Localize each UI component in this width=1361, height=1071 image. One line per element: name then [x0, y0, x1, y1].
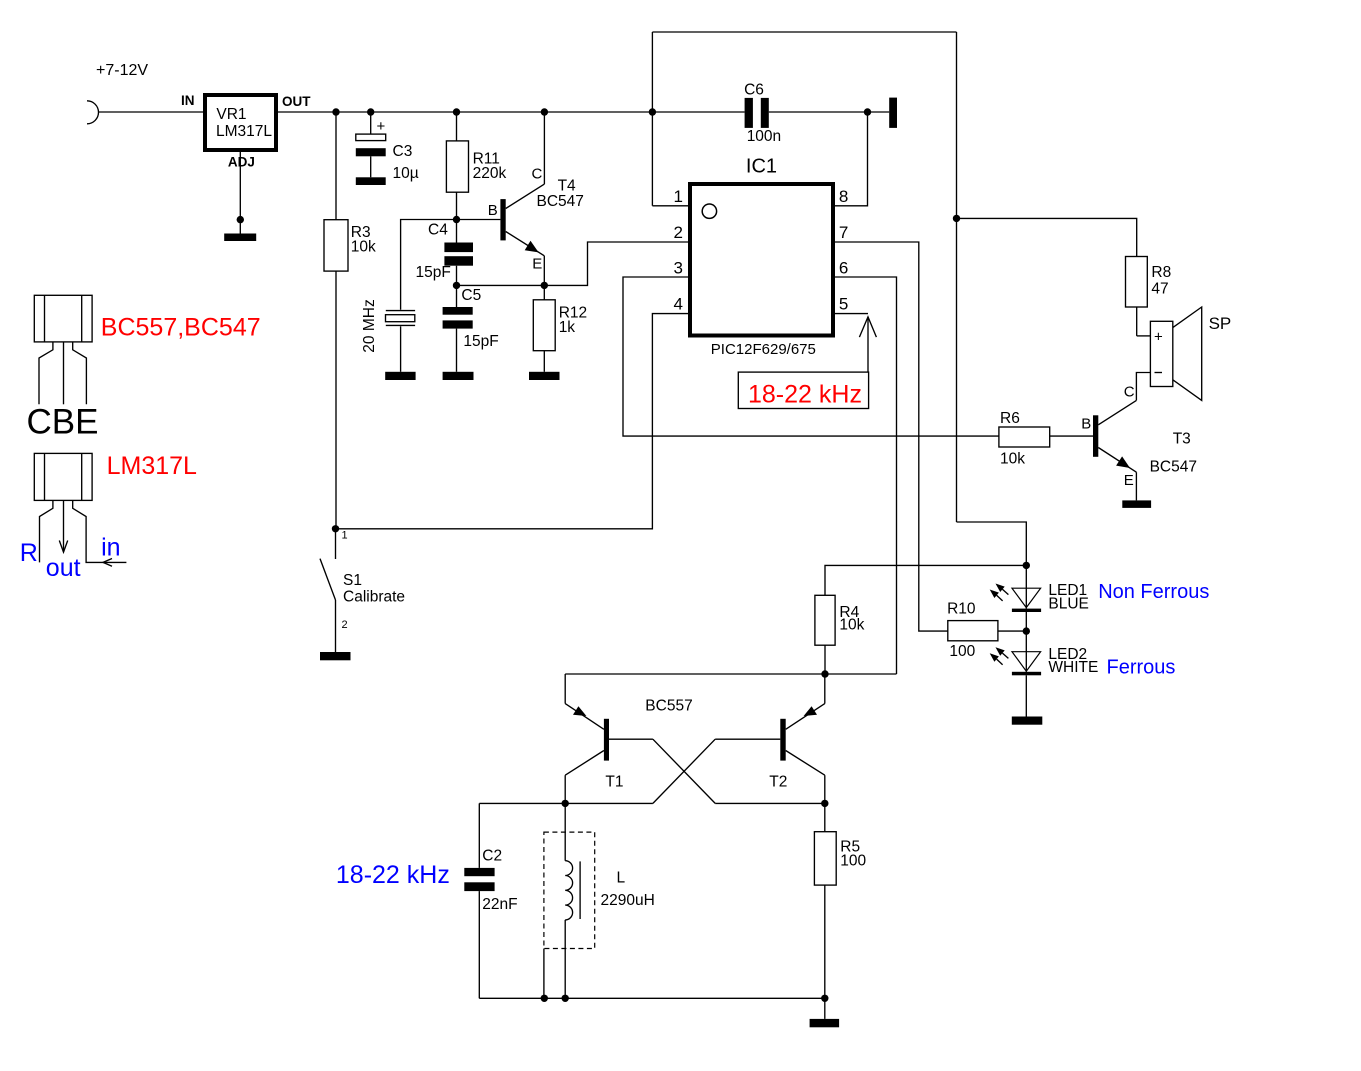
wire C6 to supply bar — [769, 108, 889, 115]
wire pin 6 to emitter rail — [833, 277, 897, 674]
svg-text:SP: SP — [1209, 314, 1232, 333]
svg-text:+: + — [1154, 329, 1163, 346]
svg-text:out: out — [46, 554, 81, 582]
wire to bottom ground — [824, 998, 826, 1019]
svg-text:2290uH: 2290uH — [601, 892, 655, 909]
node T4 emitter junction — [541, 282, 548, 289]
svg-text:10µ: 10µ — [393, 165, 419, 182]
svg-text:C4: C4 — [428, 222, 448, 239]
svg-text:15pF: 15pF — [463, 333, 498, 350]
svg-text:8: 8 — [839, 187, 848, 206]
calibrate arrow at pin 5 — [859, 317, 876, 372]
wire emitter rail multivibrator — [565, 670, 896, 677]
ground C3 — [356, 177, 386, 185]
label LED2 WHITE — [1048, 646, 1098, 676]
svg-text:10k: 10k — [839, 616, 864, 633]
svg-text:100: 100 — [840, 853, 866, 870]
supply terminal bar — [889, 98, 897, 128]
wire pin 7 to R10 — [833, 242, 948, 631]
capacitor C2 22nF — [464, 803, 517, 998]
svg-text:18-22 kHz: 18-22 kHz — [748, 380, 862, 408]
svg-text:BC557,BC547: BC557,BC547 — [101, 314, 261, 342]
svg-text:18-22 kHz: 18-22 kHz — [336, 861, 450, 889]
ground bottom — [810, 1019, 840, 1027]
svg-text:T1: T1 — [605, 774, 623, 791]
LED1 blue — [990, 565, 1041, 671]
resistor R3 10k — [324, 112, 376, 529]
connector J1 +7-12V input — [87, 101, 99, 124]
svg-text:PIC12F629/675: PIC12F629/675 — [711, 341, 816, 358]
svg-text:R: R — [20, 539, 38, 567]
svg-text:OUT: OUT — [282, 94, 311, 109]
wire pin 8 to rail — [833, 112, 868, 206]
wire Vdd top loop — [652, 32, 960, 522]
label box 18-22 kHz red — [738, 372, 868, 408]
svg-text:B: B — [488, 202, 498, 219]
node C5 junction — [453, 282, 460, 289]
IC1 PIC12F629/675 — [690, 156, 833, 358]
wire speaker minus to T3 collector — [1136, 373, 1150, 401]
svg-text:C6: C6 — [744, 81, 764, 98]
wire pin 1 to Vdd — [652, 205, 690, 207]
svg-text:ADJ: ADJ — [228, 155, 255, 170]
ground T3 — [1122, 500, 1151, 508]
resistor R10 100 — [947, 601, 1030, 661]
svg-text:47: 47 — [1151, 281, 1168, 298]
svg-text:7: 7 — [839, 223, 848, 242]
TO-92 package BC557/BC547 — [34, 295, 92, 404]
svg-text:10k: 10k — [1000, 451, 1025, 468]
svg-text:5: 5 — [839, 295, 848, 314]
speaker SP — [1150, 307, 1231, 400]
transistor T2 BC557 — [715, 674, 825, 803]
svg-text:IN: IN — [181, 93, 195, 108]
svg-text:4: 4 — [674, 295, 683, 314]
wire bottom rail — [479, 995, 828, 1002]
svg-text:100n: 100n — [747, 128, 781, 145]
svg-text:E: E — [532, 255, 542, 272]
svg-text:BC557: BC557 — [645, 698, 692, 715]
svg-text:S1: S1 — [343, 572, 362, 589]
transistor T4 BC547 — [457, 112, 584, 285]
ground crystal — [385, 372, 415, 380]
resistor R5 100 — [814, 803, 866, 998]
svg-text:in: in — [101, 533, 120, 561]
ground S1 — [320, 652, 351, 660]
svg-text:T3: T3 — [1173, 430, 1191, 447]
svg-text:15pF: 15pF — [416, 264, 451, 281]
wire J1 to VR1 IN — [99, 111, 204, 113]
LED2 white — [990, 647, 1041, 716]
capacitor C5 15pF — [443, 285, 499, 371]
wire pin 5 — [833, 313, 868, 315]
wire T3 emitter to ground — [1135, 472, 1137, 500]
svg-text:Ferrous: Ferrous — [1107, 656, 1176, 678]
svg-text:R6: R6 — [1000, 410, 1020, 427]
svg-text:CBE: CBE — [27, 403, 99, 442]
svg-text:20 MHz: 20 MHz — [361, 299, 378, 352]
resistor R4 10k — [815, 595, 865, 674]
label LED1 BLUE — [1048, 582, 1089, 612]
svg-text:100: 100 — [949, 643, 975, 660]
svg-text:+7-12V: +7-12V — [96, 62, 148, 79]
wire C5 node to emitter node — [457, 284, 545, 286]
svg-text:C: C — [1124, 383, 1135, 400]
ground C5 — [443, 372, 474, 380]
svg-text:1: 1 — [674, 187, 683, 206]
wire T1 base to T2 collector node — [653, 739, 829, 807]
capacitor C4 15pF — [416, 220, 474, 286]
ground ADJ — [224, 234, 256, 242]
svg-text:B: B — [1081, 415, 1091, 432]
wire T1 collector node to C2 — [479, 802, 565, 804]
svg-text:T4: T4 — [558, 177, 576, 194]
node T4 base junction — [453, 216, 460, 223]
svg-text:+: + — [377, 118, 386, 135]
svg-text:IC1: IC1 — [746, 156, 777, 178]
resistor R11 220k — [446, 112, 506, 220]
svg-text:C: C — [532, 166, 543, 183]
svg-text:1k: 1k — [559, 319, 576, 336]
transistor T1 BC557 — [565, 674, 653, 803]
svg-text:L: L — [617, 870, 626, 887]
svg-text:LM317L: LM317L — [216, 123, 272, 140]
wire pin 3 to R6 — [623, 277, 999, 436]
capacitor C3 10u — [356, 112, 419, 182]
regulator VR1 LM317L — [181, 93, 311, 170]
svg-text:22nF: 22nF — [482, 896, 517, 913]
svg-text:VR1: VR1 — [216, 106, 246, 123]
svg-text:10k: 10k — [351, 238, 376, 255]
svg-text:2: 2 — [342, 619, 348, 631]
svg-text:3: 3 — [674, 259, 683, 278]
switch S1 Calibrate — [320, 525, 405, 652]
resistor R6 10k — [999, 410, 1093, 468]
svg-text:C3: C3 — [393, 143, 413, 160]
svg-text:T2: T2 — [769, 774, 787, 791]
svg-text:BC547: BC547 — [1150, 458, 1197, 475]
crystal X1 20 MHz — [361, 299, 415, 352]
resistor R12 1k — [533, 285, 587, 371]
resistor R8 47 — [1126, 257, 1172, 336]
svg-text:LM317L: LM317L — [107, 452, 197, 480]
svg-text:C2: C2 — [482, 847, 502, 864]
svg-text:C5: C5 — [461, 287, 481, 304]
wire R4 top — [825, 565, 1026, 595]
ground R12 — [529, 372, 560, 380]
wire T2 base to T1 collector node — [562, 739, 716, 807]
wire emitter node to IC pin 2 — [544, 242, 690, 285]
wire +V rail — [278, 108, 745, 115]
svg-text:R10: R10 — [947, 601, 976, 618]
svg-text:BLUE: BLUE — [1048, 596, 1089, 613]
ground LED2 — [1012, 717, 1043, 725]
TO-92 package LM317L — [34, 453, 126, 566]
svg-text:BC547: BC547 — [537, 193, 584, 210]
svg-text:220k: 220k — [473, 165, 507, 182]
search coil L 2290uH — [544, 803, 655, 998]
svg-text:2: 2 — [674, 223, 683, 242]
wire crystal to ground — [400, 326, 402, 372]
svg-text:R8: R8 — [1151, 264, 1171, 281]
transistor T3 BC547 — [1081, 383, 1197, 489]
svg-text:6: 6 — [839, 259, 848, 278]
capacitor C6 100n — [744, 81, 781, 145]
svg-text:E: E — [1124, 472, 1134, 489]
wire VR1 ADJ to ground — [237, 150, 244, 234]
wire base node to crystal — [401, 220, 457, 310]
svg-text:1: 1 — [342, 530, 348, 542]
svg-text:Non Ferrous: Non Ferrous — [1098, 581, 1209, 603]
wire Vdd to R8 — [957, 218, 1137, 256]
wire pin 4 to S1 — [336, 314, 691, 529]
svg-text:Calibrate: Calibrate — [343, 589, 405, 606]
svg-text:WHITE: WHITE — [1048, 659, 1098, 676]
wire Vdd branch to LED column — [957, 522, 1031, 569]
